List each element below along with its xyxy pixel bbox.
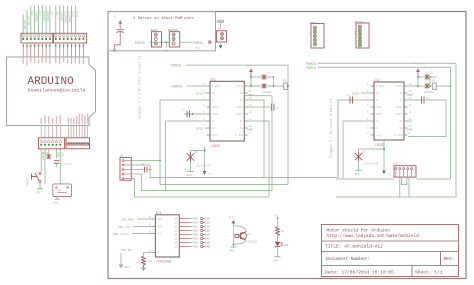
svg-text:ARDUINO: ARDUINO bbox=[28, 76, 75, 88]
drop 4Y IC1 bbox=[263, 100, 265, 178]
svg-text:VCC: VCC bbox=[414, 63, 419, 66]
upper wire bbox=[251, 76, 274, 78]
lower wire from pin bbox=[244, 85, 283, 87]
diode D3 bbox=[425, 74, 429, 80]
wire L4 bbox=[131, 179, 269, 198]
svg-text:GND: GND bbox=[36, 192, 41, 195]
wire PWM2A2 bbox=[318, 66, 451, 68]
svg-text:3Y: 3Y bbox=[240, 120, 244, 123]
connector X2 motor power header bbox=[394, 163, 416, 177]
svg-text:GND3: GND3 bbox=[396, 106, 403, 109]
supply arrow bbox=[382, 171, 386, 175]
svg-text:Q3: Q3 bbox=[248, 233, 252, 236]
svg-text:MOT34: MOT34 bbox=[355, 21, 364, 24]
IC1 pin stubs, numbers and pin names bbox=[203, 83, 252, 137]
IC3 pin stubs, numbers, output net labels M1A-M4B and pin circles bbox=[148, 216, 210, 254]
svg-text:D3PWM: D3PWM bbox=[34, 12, 37, 21]
header JP1 top-left bbox=[21, 33, 53, 43]
svg-text:C4: C4 bbox=[346, 95, 350, 98]
svg-text:R5: R5 bbox=[432, 80, 436, 83]
wire 1Y from left rail bbox=[160, 99, 210, 101]
svg-text:VCC: VCC bbox=[275, 215, 280, 218]
pullup network D1 D2 R4 with VCC above IC1 bbox=[244, 66, 287, 95]
svg-text:GND3: GND3 bbox=[236, 106, 243, 109]
svg-text:GND2: GND2 bbox=[212, 113, 219, 116]
wire 2Y from left rail bbox=[166, 120, 211, 122]
svg-text:D5PWM: D5PWM bbox=[42, 12, 45, 21]
bottom left circuit bbox=[27, 149, 72, 205]
drop 3Y IC1 bbox=[268, 121, 270, 197]
wire to PWM2A bbox=[180, 41, 193, 43]
svg-text:D11PWM: D11PWM bbox=[67, 12, 70, 23]
svg-text:GND: GND bbox=[54, 202, 59, 205]
svg-text:M1A: M1A bbox=[193, 226, 198, 229]
svg-text:4Y: 4Y bbox=[399, 99, 403, 102]
servo box bbox=[108, 12, 216, 51]
svg-text:D2: D2 bbox=[31, 12, 34, 16]
svg-text:+MOT: +MOT bbox=[406, 94, 413, 97]
svg-text:GND4: GND4 bbox=[236, 113, 243, 116]
svg-text:GND2: GND2 bbox=[376, 113, 383, 116]
header JP2 top-right bbox=[54, 33, 87, 43]
svg-text:RESET: RESET bbox=[27, 177, 30, 186]
connector SERVO2 servo 2 bbox=[168, 29, 180, 47]
pushbutton S2 box bbox=[53, 184, 72, 205]
svg-text:PWM2A: PWM2A bbox=[306, 66, 316, 70]
svg-text:L293D: L293D bbox=[375, 143, 385, 147]
op IC1 L293D box bbox=[210, 81, 244, 141]
svg-text:1K: 1K bbox=[281, 230, 285, 233]
svg-text:QC: QC bbox=[175, 226, 179, 229]
svg-text:VCC1: VCC1 bbox=[236, 85, 243, 88]
transistor Q3 circuit with VCC and ground bbox=[229, 216, 258, 253]
svg-text:SCK: SCK bbox=[157, 226, 162, 229]
capacitor C3 bbox=[187, 153, 194, 162]
ground under LED1 bbox=[275, 256, 281, 258]
arduino top pin-name text row bbox=[23, 58, 85, 66]
connector MOT34 motor terminals M3/M4 bbox=[353, 21, 369, 48]
diode D5 bbox=[47, 154, 51, 159]
svg-text:1Y: 1Y bbox=[376, 99, 380, 102]
svg-text:VCC2: VCC2 bbox=[212, 134, 219, 137]
svg-text:DIRA: DIRA bbox=[352, 93, 359, 96]
svg-text:DIR_CLK: DIR_CLK bbox=[118, 226, 130, 229]
capacitor C7 bbox=[355, 152, 362, 161]
svg-text:IC2: IC2 bbox=[374, 78, 380, 82]
svg-text:M4A: M4A bbox=[205, 238, 210, 241]
wire PWM2B bbox=[318, 62, 457, 64]
svg-text:VCC: VCC bbox=[42, 152, 47, 155]
power LED chain: resistor R3, LED1, ground bbox=[273, 215, 289, 263]
svg-text:GND: GND bbox=[229, 250, 234, 253]
connector MOT12 motor terminals M1/M2 bbox=[308, 22, 324, 48]
svg-text:VCC: VCC bbox=[247, 66, 252, 69]
svg-text:D1/TX: D1/TX bbox=[27, 16, 31, 25]
svg-text:LED: LED bbox=[284, 244, 289, 247]
svg-text:X2: X2 bbox=[394, 163, 398, 166]
svg-text:X1: X1 bbox=[120, 155, 124, 158]
wire PWM0A bbox=[187, 85, 211, 87]
svg-text:D1: D1 bbox=[267, 72, 271, 75]
svg-text:M4B: M4B bbox=[193, 246, 198, 249]
svg-text:PN2222: PN2222 bbox=[248, 241, 258, 244]
svg-text:3A: 3A bbox=[399, 127, 403, 130]
svg-text:M3B: M3B bbox=[205, 242, 210, 245]
wire to diode bbox=[48, 149, 50, 154]
svg-text:M3A: M3A bbox=[205, 218, 210, 221]
wire 3Y right bbox=[404, 120, 412, 122]
svg-text:SERVO2: SERVO2 bbox=[168, 29, 179, 32]
connector SER1 servo 1 bbox=[151, 29, 162, 47]
header JP3 bottom power bbox=[39, 138, 65, 149]
svg-text:GND: GND bbox=[187, 174, 192, 177]
svg-text:D9PWM: D9PWM bbox=[60, 12, 63, 21]
svg-text:D8: D8 bbox=[56, 12, 59, 16]
header JP1/JP2 pins, junction dots and digital net wires with labels bbox=[22, 6, 85, 58]
transistor Q1 bbox=[240, 233, 247, 240]
svg-text:S1: S1 bbox=[58, 189, 62, 192]
svg-text:D10PWM: D10PWM bbox=[63, 12, 66, 23]
wire hE right bbox=[336, 63, 456, 197]
svg-text:C8: C8 bbox=[113, 15, 116, 19]
svg-text:4Y: 4Y bbox=[240, 99, 244, 102]
wire GND3 to cap bbox=[244, 104, 279, 111]
capacitor C9 bbox=[141, 163, 147, 173]
ic3 area bbox=[113, 211, 210, 271]
capacitor C1 on GND pin bbox=[182, 109, 210, 118]
arduino bottom pin-name text row bbox=[41, 114, 89, 125]
svg-text:GND: GND bbox=[273, 260, 278, 263]
svg-text:10K: 10K bbox=[147, 260, 152, 263]
svg-text:GND: GND bbox=[407, 129, 413, 132]
header JP3/JP4 pins and stubs bbox=[40, 126, 89, 146]
header JP4 bottom analog bbox=[66, 138, 90, 149]
capacitor C6 polarized bbox=[54, 160, 72, 168]
svg-text:2Y: 2Y bbox=[212, 120, 216, 123]
svg-text:GND: GND bbox=[247, 129, 253, 132]
svg-text:M2B: M2B bbox=[205, 234, 210, 237]
capacitor C8 with VCC arrow bbox=[113, 15, 124, 52]
svg-text:1-2EN: 1-2EN bbox=[376, 85, 384, 88]
svg-text:1N4001: 1N4001 bbox=[262, 91, 272, 94]
wire short bbox=[56, 149, 58, 158]
svg-text:GND: GND bbox=[124, 266, 129, 269]
svg-text:M3B: M3B bbox=[193, 242, 198, 245]
svg-text:RCK: RCK bbox=[157, 233, 162, 236]
IC2 pin stubs, numbers and pin names bbox=[367, 83, 412, 137]
diode D1 bbox=[262, 74, 266, 80]
svg-text:M2A: M2A bbox=[205, 222, 210, 225]
long wires bbox=[131, 63, 456, 197]
wire X1 pin3 cap bbox=[131, 169, 152, 171]
wire to button right bbox=[59, 149, 61, 184]
wire bbox=[150, 41, 169, 43]
svg-text:DIR_SER: DIR_SER bbox=[121, 219, 133, 222]
svg-text:C5: C5 bbox=[426, 97, 430, 100]
wire L2 bbox=[131, 100, 288, 185]
wire to button bbox=[44, 149, 46, 184]
svg-text:74HC595N: 74HC595N bbox=[156, 260, 171, 264]
connector X1 logic header bbox=[120, 155, 131, 181]
svg-text:http://www.ladyada.net/make/ms: http://www.ladyada.net/make/mshield bbox=[327, 234, 420, 239]
op IC2 L293D box bbox=[374, 82, 404, 140]
svg-text:DIR_LATCH: DIR_LATCH bbox=[113, 233, 129, 236]
LED1 bbox=[275, 242, 281, 247]
svg-text:PWM0B: PWM0B bbox=[171, 64, 181, 68]
svg-text:M4B: M4B bbox=[205, 246, 210, 249]
svg-text:M4A: M4A bbox=[193, 238, 198, 241]
svg-text:D7: D7 bbox=[50, 12, 53, 16]
svg-text:GND1: GND1 bbox=[212, 106, 219, 109]
svg-text:1-2EN: 1-2EN bbox=[212, 85, 220, 88]
rail IC2 left A bbox=[338, 100, 343, 179]
svg-text:3Y: 3Y bbox=[399, 120, 403, 123]
svg-text:GND4: GND4 bbox=[396, 113, 403, 116]
svg-text:Date: 17/06/2014 10:10:05: Date: 17/06/2014 10:10:05 bbox=[325, 270, 394, 276]
svg-text:PWM1B: PWM1B bbox=[135, 41, 145, 45]
rail to IC1 2Y bbox=[165, 121, 167, 191]
gnd symbol bbox=[358, 161, 360, 170]
svg-text:QB: QB bbox=[175, 222, 179, 225]
svg-text:GND: GND bbox=[163, 50, 168, 53]
svg-text:IC1: IC1 bbox=[210, 77, 216, 81]
svg-text:M3A: M3A bbox=[193, 218, 198, 221]
svg-text:D0/RX: D0/RX bbox=[23, 20, 27, 29]
ground arrow on DIR_EN net bbox=[119, 253, 130, 269]
svg-text:D12: D12 bbox=[71, 12, 74, 18]
svg-text:GND: GND bbox=[355, 173, 360, 176]
connector EXT_PWR bbox=[216, 20, 226, 49]
ground under S1 bbox=[36, 183, 44, 195]
wire 3Y right bbox=[244, 120, 269, 122]
svg-text:Motor shield for Arduino: Motor shield for Arduino bbox=[327, 229, 391, 234]
svg-text:QD: QD bbox=[175, 230, 179, 233]
svg-text:C1: C1 bbox=[182, 109, 186, 112]
wire 4Y right with cap C5 bbox=[404, 97, 440, 104]
resistor R3 bbox=[276, 227, 280, 236]
motor connectors bbox=[308, 21, 369, 48]
bottom header net labels bbox=[41, 152, 63, 160]
svg-text:QA: QA bbox=[175, 218, 179, 221]
svg-text:1A: 1A bbox=[212, 92, 216, 95]
svg-text:3A: 3A bbox=[240, 127, 244, 130]
svg-text:PWM2A: PWM2A bbox=[193, 41, 203, 45]
wire OE pin bbox=[144, 253, 156, 257]
svg-text:1A: 1A bbox=[376, 92, 380, 95]
wire L3 bbox=[131, 96, 272, 191]
svg-text:M2B: M2B bbox=[193, 234, 198, 237]
svg-text:VCC1: VCC1 bbox=[396, 85, 403, 88]
svg-text:VCC2: VCC2 bbox=[376, 134, 383, 137]
svg-text:R4: R4 bbox=[283, 80, 287, 83]
wire PWM0B bbox=[186, 65, 288, 184]
svg-text:REV:: REV: bbox=[444, 256, 455, 262]
svg-text:M1B: M1B bbox=[193, 230, 198, 233]
svg-text:100nF/63V: 100nF/63V bbox=[364, 162, 379, 166]
wire hD right bbox=[336, 67, 451, 179]
wire 2Y from left rail bbox=[343, 120, 374, 122]
resistor R4 bbox=[284, 83, 288, 90]
svg-text:C9: C9 bbox=[141, 163, 145, 166]
svg-text:1N4001: 1N4001 bbox=[424, 91, 434, 94]
svg-text:D6PWM: D6PWM bbox=[46, 12, 49, 21]
wire 1Y from left rail with cap C4 bbox=[338, 95, 374, 104]
svg-text:TITLE: AF_mshield-v12: TITLE: AF_mshield-v12 bbox=[325, 244, 383, 250]
svg-text:4A: 4A bbox=[399, 92, 403, 95]
svg-text:DIR_EN: DIR_EN bbox=[121, 249, 132, 252]
svg-text:DIR1: DIR1 bbox=[196, 93, 203, 96]
svg-text:M4: M4 bbox=[353, 31, 356, 35]
svg-text:M1B: M1B bbox=[205, 230, 210, 233]
svg-text:C7: C7 bbox=[363, 151, 367, 154]
svg-text:PWM0A: PWM0A bbox=[172, 85, 182, 89]
lower wire from pin bbox=[404, 85, 433, 87]
cap C5 loop bbox=[408, 100, 446, 137]
svg-text:Stepper 3 / DC motor driver #2: Stepper 3 / DC motor driver #2 bbox=[329, 99, 333, 158]
ic2 area bbox=[306, 62, 456, 177]
ground net below IC1 with capacitor C3 bbox=[187, 147, 212, 177]
svg-text:+M: +M bbox=[218, 28, 222, 31]
svg-text:DIR2: DIR2 bbox=[196, 128, 203, 131]
svg-text:QH: QH bbox=[175, 246, 179, 249]
svg-text:100nF/63V: 100nF/63V bbox=[196, 164, 211, 168]
gnd symbol bbox=[190, 162, 192, 172]
svg-text:D3: D3 bbox=[430, 72, 434, 75]
arduino bbox=[7, 6, 96, 149]
ground net below IC2 with capacitor C7 bbox=[355, 140, 391, 176]
svg-text:2Y: 2Y bbox=[376, 120, 380, 123]
svg-text:IC3: IC3 bbox=[155, 211, 161, 215]
svg-text:Duemilanove@iecimila: Duemilanove@iecimila bbox=[28, 88, 86, 94]
pullup network D3 D4 R5 with VCC above IC2 bbox=[404, 63, 451, 95]
svg-text:+MOT: +MOT bbox=[247, 94, 254, 97]
svg-text:3-4EN: 3-4EN bbox=[394, 134, 402, 137]
base resistor R6 bbox=[235, 235, 239, 238]
svg-text:2A: 2A bbox=[376, 127, 380, 130]
pin stub bbox=[209, 41, 212, 44]
junction pullup2 bbox=[450, 85, 452, 87]
ground arrow under R1 bbox=[141, 268, 146, 272]
svg-text:MOT12: MOT12 bbox=[310, 22, 319, 25]
svg-text:QE: QE bbox=[175, 234, 179, 237]
svg-text:QF: QF bbox=[175, 238, 179, 241]
svg-text:D4: D4 bbox=[38, 12, 41, 16]
svg-text:Stepper 1 / 2 DC motor driver: Stepper 1 / 2 DC motor driver #1 bbox=[138, 56, 142, 119]
svg-text:4A: 4A bbox=[240, 92, 244, 95]
svg-text:L293D: L293D bbox=[211, 144, 221, 148]
svg-text:Document Number:: Document Number: bbox=[326, 256, 370, 262]
svg-text:3-4EN: 3-4EN bbox=[235, 134, 243, 137]
svg-text:VCC: VCC bbox=[195, 47, 200, 50]
title block bbox=[322, 225, 459, 278]
svg-text:SER: SER bbox=[157, 218, 162, 221]
svg-text:SER1: SER1 bbox=[151, 29, 158, 32]
ground under Q3 bbox=[233, 244, 235, 246]
supply arrow bbox=[203, 171, 207, 175]
arduino board outline bbox=[7, 57, 96, 126]
svg-text:1uF/16V: 1uF/16V bbox=[61, 162, 72, 166]
diode D4 bbox=[425, 83, 429, 89]
wire from RESET pin bbox=[40, 149, 42, 172]
svg-text:VIN: VIN bbox=[60, 152, 63, 157]
junction bbox=[166, 41, 168, 43]
transistor and led bbox=[229, 215, 289, 263]
wire L1 bbox=[131, 100, 338, 178]
svg-text:1Y: 1Y bbox=[212, 99, 216, 102]
svg-text:M1A: M1A bbox=[205, 226, 210, 229]
svg-text:M2A: M2A bbox=[193, 222, 198, 225]
svg-text:QG: QG bbox=[175, 242, 179, 245]
resistor R1 bbox=[142, 256, 146, 268]
svg-text:2 Servos on 16bit PWM pins: 2 Servos on 16bit PWM pins bbox=[133, 16, 194, 21]
svg-text:C2: C2 bbox=[276, 107, 280, 110]
svg-text:GND: GND bbox=[57, 152, 60, 157]
diode D2 bbox=[262, 83, 266, 89]
svg-text:D13: D13 bbox=[75, 12, 78, 18]
op IC3 74HC595 box bbox=[155, 215, 179, 257]
svg-text:GND1: GND1 bbox=[376, 106, 383, 109]
svg-text:C3: C3 bbox=[195, 151, 199, 154]
ic1 area bbox=[138, 56, 288, 177]
wire 4Y right bbox=[244, 99, 264, 101]
servo area bbox=[113, 15, 227, 53]
resistor R5 bbox=[433, 83, 437, 90]
svg-text:Sheet: 1/1: Sheet: 1/1 bbox=[415, 270, 443, 276]
svg-text:M2: M2 bbox=[308, 31, 311, 35]
X2 pin drops bbox=[402, 177, 407, 185]
collector loop bbox=[233, 226, 246, 232]
svg-text:VCC: VCC bbox=[229, 216, 234, 219]
reset switch S1 bbox=[27, 172, 42, 186]
svg-text:2A: 2A bbox=[212, 127, 216, 130]
junction pullup1 bbox=[287, 85, 289, 87]
